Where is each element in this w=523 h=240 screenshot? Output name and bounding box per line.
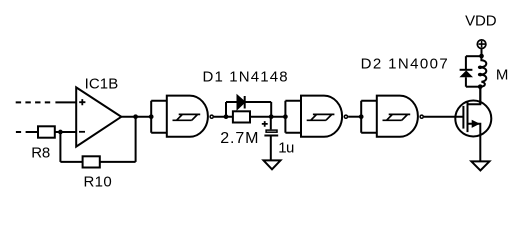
wire solid lead to + input xyxy=(55,101,76,103)
wire diode branch lower xyxy=(465,77,467,86)
wire gate2 output to gate3 xyxy=(348,116,361,118)
capacitor 1u plus marker xyxy=(262,121,268,127)
wire R8 to inverting input xyxy=(55,131,76,133)
resistor R8 xyxy=(38,126,55,137)
diode D2 xyxy=(459,70,473,77)
wire cap to ground xyxy=(270,136,272,161)
diode D1 xyxy=(238,96,245,109)
wire motor bottom to drain xyxy=(479,87,481,105)
wire bottom horizontal diode to motor xyxy=(466,86,480,88)
wire cap node down xyxy=(270,117,272,130)
capacitor 1u bottom plate xyxy=(264,135,278,137)
wire D1 branch top right xyxy=(245,101,272,103)
gate U1A schmitt nand xyxy=(149,96,213,137)
wire feedback rail left segment xyxy=(60,161,82,163)
node op-amp output junction xyxy=(133,114,138,119)
svg-text:D2 1N4007: D2 1N4007 xyxy=(361,55,450,72)
diode D1 cathode bar xyxy=(244,96,246,109)
VDD plus marker xyxy=(479,41,486,48)
node gate2 input xyxy=(283,114,288,119)
wire feedback rail up to output node xyxy=(135,117,137,162)
input bracket xyxy=(151,101,167,133)
VDD supply circle xyxy=(477,40,486,49)
wire gate3 output to mosfet gate xyxy=(424,116,464,118)
wire lead into R8 xyxy=(26,131,38,133)
diode D2 cathode bar xyxy=(460,69,473,71)
svg-text:D1 1N4148: D1 1N4148 xyxy=(203,69,289,86)
gate U1C schmitt nand xyxy=(359,96,423,137)
wire diode branch upper xyxy=(465,56,467,69)
wire junction down to feedback rail xyxy=(59,132,61,162)
svg-text:VDD: VDD xyxy=(465,12,497,29)
wire dashed input to R8 xyxy=(16,131,21,133)
output bubble xyxy=(210,115,213,118)
hysteresis glyph xyxy=(307,114,335,120)
node gate1 input xyxy=(149,114,154,119)
mosfet drain tap xyxy=(468,87,481,104)
node gate3 input xyxy=(359,114,364,119)
input bracket xyxy=(361,101,377,133)
transistor Q1 mosfet circle xyxy=(455,101,491,137)
node D1 branch split xyxy=(224,114,229,119)
svg-text:R10: R10 xyxy=(84,174,113,191)
hysteresis glyph xyxy=(383,114,411,120)
svg-text:R8: R8 xyxy=(31,144,50,161)
mosfet source tap xyxy=(468,124,481,162)
wire top horizontal to diode branch xyxy=(466,55,482,57)
capacitor 1u top plate xyxy=(266,130,277,132)
node R8/feedback junction xyxy=(58,130,63,135)
ground below mosfet xyxy=(471,161,489,170)
svg-text:IC1B: IC1B xyxy=(85,76,119,93)
op-amp minus input marker xyxy=(79,131,85,133)
wire 2.7M to cap node xyxy=(250,116,285,118)
output bubble xyxy=(420,115,423,118)
svg-text:2.7M: 2.7M xyxy=(220,130,259,147)
op-amp plus input marker xyxy=(79,99,85,105)
wire VDD to motor top node xyxy=(481,49,483,57)
wire up to D1 branch xyxy=(225,102,227,117)
node cap junction xyxy=(269,114,274,119)
node motor top xyxy=(479,54,484,59)
gate body xyxy=(167,96,208,137)
wire dashed input to non-inverting input xyxy=(16,101,51,103)
gate body xyxy=(301,96,342,137)
mosfet source arrow xyxy=(472,120,480,128)
resistor 2.7M xyxy=(233,111,250,122)
hysteresis glyph xyxy=(173,114,201,120)
mosfet channel bar xyxy=(467,102,469,132)
svg-text:M: M xyxy=(496,67,509,84)
wire gate1 output to D1 node xyxy=(214,116,233,118)
wire D1 branch top left xyxy=(226,101,238,103)
wire feedback rail right segment xyxy=(100,161,136,163)
motor M coil xyxy=(479,56,486,87)
resistor R10 xyxy=(83,156,100,167)
node motor bottom xyxy=(478,84,483,89)
op-amp IC1B xyxy=(76,87,121,146)
input bracket xyxy=(285,101,301,133)
output bubble xyxy=(344,115,347,118)
mosfet gate bar xyxy=(462,106,464,129)
gate U1B schmitt nand xyxy=(285,96,347,137)
ground below capacitor xyxy=(264,160,281,169)
gate body xyxy=(377,96,418,137)
wire op-amp output xyxy=(121,116,151,118)
svg-text:1u: 1u xyxy=(278,140,294,157)
wire D1 branch down xyxy=(270,102,272,117)
